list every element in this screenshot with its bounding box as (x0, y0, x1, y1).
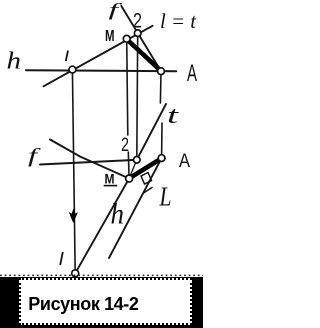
segment MA top view (thick) (131, 159, 161, 178)
wire line f front view through 2 to A (121, 6, 161, 71)
node 1 top view (72, 270, 79, 277)
svg-text:t: t (167, 103, 180, 129)
node M top view (126, 175, 133, 182)
svg-text:h: h (7, 49, 22, 75)
wire projection line from M down (127, 39, 128, 135)
svg-text:h: h (111, 198, 125, 231)
wire projection line from 2 down (136, 33, 139, 160)
svg-text:f: f (109, 0, 124, 20)
wire h-line top view from 1 to M (75, 179, 129, 274)
wire line l top view M to 2 (129, 160, 137, 179)
svg-text:2: 2 (133, 10, 142, 33)
tick on rotated segment (144, 188, 153, 194)
underline of M top view (104, 185, 118, 187)
wire f-line top view horizontal (40, 160, 137, 165)
svg-text:l = t: l = t (160, 9, 197, 33)
node 2 front view (134, 30, 141, 37)
wire auxiliary diagonal to M top view (50, 140, 129, 179)
svg-text:M: M (105, 28, 115, 45)
label 1 front view (66, 51, 68, 62)
arrow on projection line (69, 209, 77, 223)
svg-text:M: M (105, 171, 115, 187)
wire line t top view from 2 (137, 104, 166, 160)
wire projection line from A down (159, 71, 162, 103)
svg-text:L: L (159, 182, 172, 212)
wire projection line from 1 down with arrow (72, 70, 75, 274)
dotted remnant line above caption (0, 274, 203, 276)
svg-text:A: A (187, 60, 197, 87)
label 1 top view (60, 252, 63, 265)
node A front view (158, 68, 165, 75)
svg-text:2: 2 (121, 135, 129, 156)
node 2 top view (134, 157, 141, 164)
caption strip (0, 277, 203, 328)
caption box (19, 278, 192, 325)
node 1 front view (69, 66, 76, 73)
node M front view (123, 35, 130, 42)
wire line l front view through 1,M,2 (44, 26, 153, 87)
svg-text:f: f (28, 145, 41, 167)
right-angle marker at M (141, 173, 152, 185)
svg-text:A: A (179, 151, 190, 172)
caption text (28, 294, 138, 315)
segment MA front view (thick) (128, 40, 161, 70)
wire h-line front view (26, 69, 176, 72)
node A top view (158, 155, 165, 162)
wire rotated segment from A down-left (109, 158, 162, 258)
